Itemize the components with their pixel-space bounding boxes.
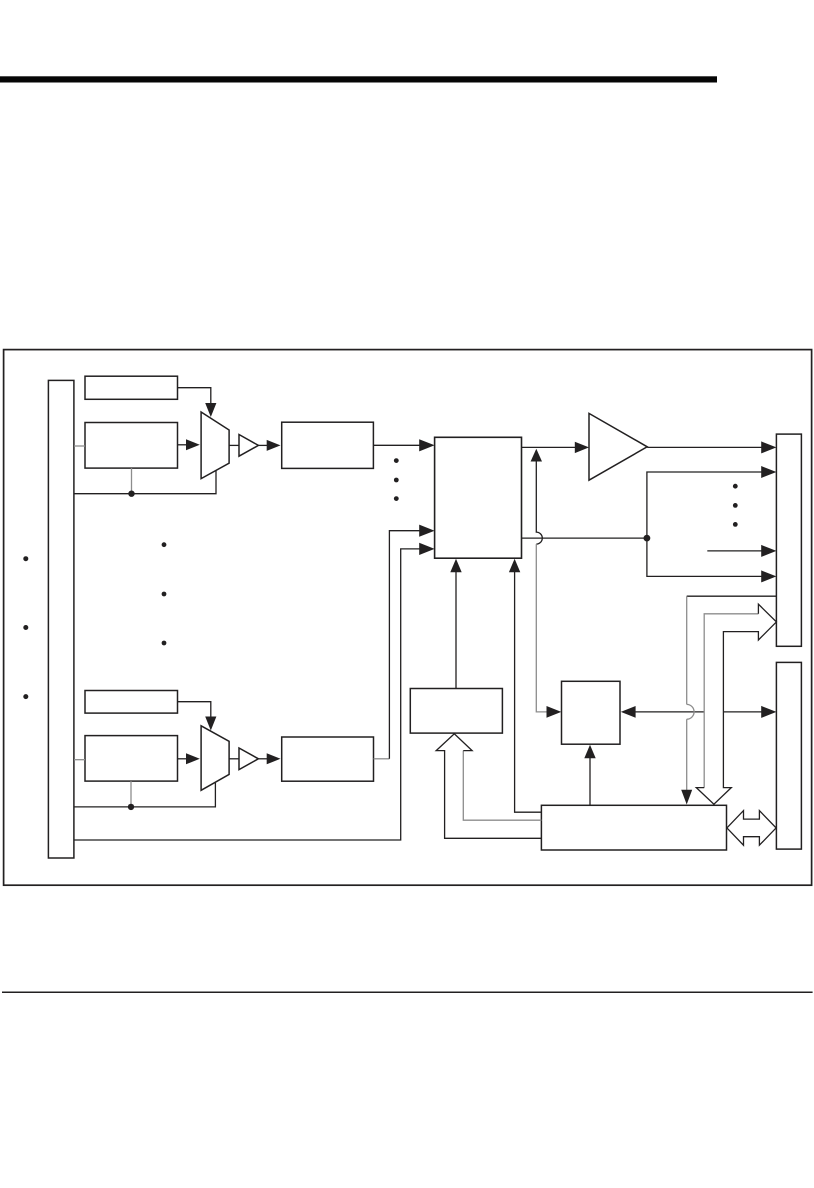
wire oscillator to bus bidirectional	[635, 711, 763, 713]
arrowhead ADC bottom ref up	[450, 559, 461, 572]
ellipsis dots before ADC	[394, 458, 399, 463]
junction dot ch2	[128, 804, 134, 810]
arrowhead into oscillator left	[547, 706, 562, 718]
wire ch2 bus to big rect	[74, 759, 85, 761]
arrowhead feedback down into control	[681, 790, 692, 805]
arrowhead amplifier into bus	[761, 441, 776, 453]
wire ADC bottom input from reference	[455, 572, 457, 689]
footer thin rule	[2, 991, 813, 993]
wire hop arc	[687, 704, 694, 719]
right output bus bar bottom	[776, 662, 801, 849]
wire ch1 ground branch vertical	[131, 468, 133, 494]
arrowhead ADC bottom ctrl up	[509, 559, 520, 572]
arrowhead ch2 into rect	[267, 753, 281, 764]
wire ch2 up to ADC input	[389, 531, 420, 759]
block: ch1 big rect	[85, 423, 178, 469]
junction dot data bracket	[644, 535, 651, 542]
wire data bracket	[647, 472, 762, 576]
wire ch1 small rect to mux top	[178, 388, 211, 403]
arrowhead ch1 mux top down	[205, 403, 216, 417]
arrowhead ch2 into mux	[186, 753, 200, 764]
block: oscillator square	[562, 681, 621, 744]
wire bus bottom to ADC input	[74, 549, 421, 840]
block: central ADC	[435, 437, 522, 558]
wire bus feedback to control horizontal	[687, 595, 777, 597]
arrowhead bracket top into bus	[761, 466, 776, 478]
bus arrow: control to reference hollow arrow	[436, 734, 541, 839]
wire ADC to amplifier	[522, 446, 576, 448]
wire ADC bottom input from control	[515, 572, 542, 813]
arrowhead ch1 into mux	[186, 439, 200, 450]
arrowhead oscillator line into bus	[761, 706, 776, 718]
block: ch1 top small rect	[85, 376, 178, 399]
block: ch2 top small rect	[85, 691, 178, 714]
wire ch1 mux to buffer	[229, 444, 239, 446]
arrowhead bus line into ADC	[419, 543, 434, 555]
arrowhead ch1 into ADC	[419, 439, 434, 451]
wire bus feedback vertical	[686, 596, 688, 704]
block: control logic bottom rect	[541, 805, 726, 850]
wire ch1 return line	[74, 471, 216, 494]
arrowhead into oscillator right	[621, 706, 636, 718]
wire ch1 bus to big rect	[74, 445, 85, 447]
header thick rule	[0, 76, 717, 82]
block: ch2 post-buffer rect	[282, 737, 374, 781]
ellipsis dots right column	[733, 484, 738, 489]
wire ch1 buffer to rect	[258, 444, 267, 446]
arrowhead ch1 into rect	[267, 440, 281, 451]
wire ch2 small rect to mux top	[178, 702, 211, 717]
wire ch2 rect jog	[374, 758, 390, 760]
ellipsis dots left column	[23, 556, 28, 561]
arrowhead clock riser up	[531, 449, 542, 462]
block: reference	[410, 689, 502, 734]
arrowhead into amplifier	[575, 442, 589, 453]
block: ch2 big rect	[85, 736, 178, 782]
bus arrow: control to bus double-headed arrow	[727, 811, 776, 846]
arrowhead oscillator bottom up	[584, 745, 595, 758]
wire oscillator bottom input	[589, 758, 591, 806]
buffer triangle ch1	[239, 435, 258, 457]
buffer triangle ch2	[239, 748, 258, 770]
wire ch2 return line	[74, 783, 216, 807]
wire clock riser lower gray	[536, 544, 547, 712]
amplifier triangle	[589, 413, 647, 480]
wire amplifier to output bus	[647, 446, 762, 448]
diagram outer border	[4, 350, 812, 886]
arrowhead ch2 mux top down	[205, 717, 216, 731]
wire ch1 rect to ADC	[373, 444, 420, 446]
wire ch2 ground branch vertical	[130, 781, 132, 807]
wire ch1 rect to mux	[178, 444, 188, 446]
wire ch2 buffer to rect	[258, 758, 267, 760]
bus arrow: control to output bus L-shaped double arrow	[696, 604, 776, 804]
arrowhead bracket bottom into bus	[761, 570, 776, 582]
arrowhead short into bus	[761, 545, 776, 557]
ellipsis dots mid column	[162, 542, 167, 547]
mux trapezoid ch2	[201, 726, 229, 791]
wire ch2 mux to buffer	[229, 758, 239, 760]
wire clock riser with hop	[536, 462, 542, 545]
block: ch1 post-buffer rect	[282, 422, 374, 468]
arrowhead ch2 into ADC	[419, 525, 434, 537]
wire ch2 rect to mux	[178, 758, 188, 760]
junction dot ch1	[128, 491, 134, 497]
mux trapezoid ch1	[201, 412, 229, 479]
wire ADC data out	[522, 537, 647, 539]
right output bus bar top	[776, 434, 801, 646]
wire short arrow to bus	[707, 550, 762, 552]
wire down to control arrow	[686, 719, 688, 790]
left input bus bar	[48, 380, 74, 858]
